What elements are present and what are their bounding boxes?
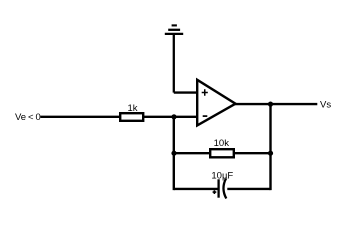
svg-text:Vs: Vs [320, 99, 331, 110]
wire ground stem [173, 34, 175, 93]
wire output [234, 103, 318, 105]
op-amp U1 [197, 80, 235, 126]
svg-text:10k: 10k [214, 138, 230, 149]
wire right feedback vertical [269, 103, 271, 190]
resistor R2 10k [210, 138, 234, 158]
node junction left 10k [171, 151, 176, 156]
capacitor C1 10uF [211, 171, 233, 199]
wire input to inverting input [41, 116, 199, 118]
wire capacitor row left [174, 188, 219, 190]
wire capacitor row right [227, 188, 270, 190]
wire feedback 10k row [174, 152, 271, 154]
svg-text:Ve < 0: Ve < 0 [15, 112, 41, 123]
node junction input/feedback [171, 114, 176, 119]
node junction output [268, 102, 273, 107]
wire noninverting input [174, 91, 199, 93]
ground [165, 25, 183, 34]
wire left feedback vertical [173, 116, 175, 191]
node junction right 10k [268, 151, 273, 156]
svg-text:10µF: 10µF [211, 171, 233, 182]
resistor R1 1k [120, 103, 143, 121]
svg-text:1k: 1k [127, 103, 137, 114]
